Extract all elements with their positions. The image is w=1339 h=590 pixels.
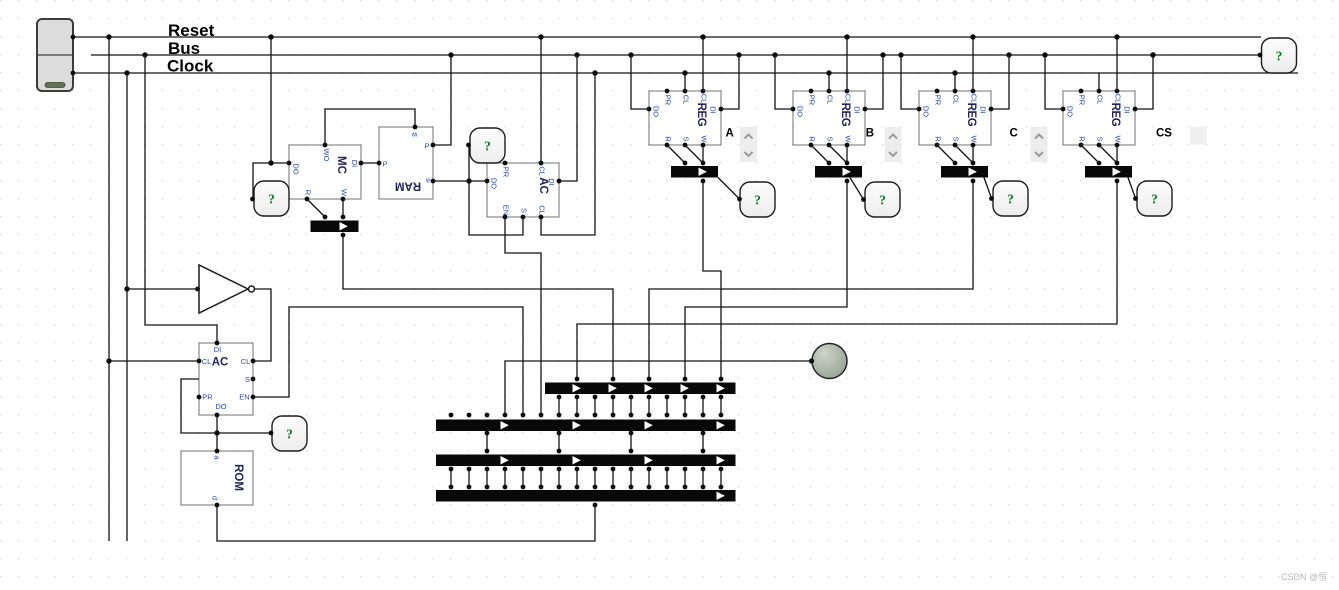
wire REG B R diagonal: [811, 145, 829, 163]
wires splitter3 to splitter4: [450, 469, 452, 487]
svg-text:?: ?: [1276, 49, 1283, 64]
svg-text:DI: DI: [1123, 106, 1132, 114]
REG A pins: [647, 89, 724, 148]
svg-text:?: ?: [286, 427, 293, 442]
svg-text:W: W: [1114, 135, 1123, 143]
svg-text:WO: WO: [322, 149, 331, 162]
wire REG B DO to Bus: [775, 55, 793, 109]
wire probe/DO to AC1 S: [469, 145, 523, 235]
svg-text:AC: AC: [212, 357, 229, 369]
svg-text:S: S: [245, 375, 250, 384]
svg-text:Clock: Clock: [167, 57, 214, 76]
register REG B: [793, 91, 865, 145]
wire REG C CL2 to Reset: [972, 37, 974, 91]
probe pin REG A: [737, 197, 742, 202]
wire REG CS CL2 to Reset: [1116, 37, 1118, 91]
wire REG A R diagonal: [667, 145, 685, 163]
wire REG B CL2 to Reset: [846, 37, 848, 91]
splitter bar MC: [311, 221, 359, 233]
ROM pins: [215, 449, 220, 508]
svg-text:ROM: ROM: [232, 464, 244, 491]
svg-text:PR: PR: [664, 95, 673, 106]
svg-text:CL: CL: [241, 357, 251, 366]
svg-text:MC: MC: [335, 156, 347, 174]
wire AC2 EN to bus splitter 2: [253, 307, 523, 415]
wire MC W to splitter: [342, 199, 344, 217]
splitter bar REG C pins: [953, 161, 976, 184]
wire REG C W net to splitter1: [649, 181, 973, 379]
wire MC DO to probe: [253, 163, 289, 199]
wire Reset to MC DO net: [270, 37, 272, 163]
RAM pins: [377, 125, 436, 184]
wire AC2 DO down to ROM a: [216, 415, 218, 451]
probe pin AC2: [269, 431, 274, 436]
svg-text:EN: EN: [239, 393, 249, 402]
wire Reset rail: [73, 36, 1261, 38]
node AC1 DO junction: [466, 178, 471, 183]
wire Bus rail: [91, 54, 1260, 56]
svg-text:PR: PR: [202, 393, 213, 402]
svg-text:DI: DI: [547, 178, 556, 186]
svg-text:?: ?: [754, 193, 761, 208]
wire inverter output to AC2 CL: [253, 289, 271, 361]
svg-text:w: w: [411, 131, 418, 140]
probe ? AC2: [272, 416, 307, 451]
wire REG B CL to Clock: [828, 73, 830, 91]
AC U4 pins: [197, 341, 256, 418]
indicator lamp: [812, 344, 847, 379]
bus splitter 2 top pins: [449, 413, 544, 418]
wire MC R diagonal to splitter: [307, 199, 325, 217]
probe ? REG B: [865, 182, 900, 217]
svg-text:?: ?: [484, 139, 491, 154]
node inverter input junction: [124, 286, 129, 291]
wire REG A splitter to probe: [718, 178, 740, 200]
svg-text:B: B: [866, 128, 874, 140]
bus splitter 2: [436, 420, 736, 432]
subcircuit AC U3: [487, 163, 559, 217]
node REG B rail junctions: [772, 34, 885, 75]
svg-text:P: P: [382, 160, 387, 169]
wire REG C DI to Bus: [991, 55, 1009, 109]
node REG A rail junctions: [628, 34, 741, 75]
svg-text:DO: DO: [922, 106, 931, 117]
spinner control B: [885, 127, 902, 162]
wire AC1 DI to Bus: [559, 55, 577, 181]
wire REG C R diagonal: [937, 145, 955, 163]
splitter bar REG A: [671, 166, 718, 178]
svg-text:?: ?: [268, 192, 275, 207]
probe pin REG CS: [1133, 196, 1138, 201]
probe ? REG A: [740, 182, 775, 217]
svg-text:W: W: [340, 189, 349, 197]
wire REG A W net to splitter1: [703, 181, 721, 379]
wire REG C splitter to probe: [984, 178, 992, 199]
splitter bar REG B: [815, 166, 862, 178]
svg-text:CL: CL: [952, 95, 961, 105]
wire Clock rail: [73, 72, 1298, 74]
svg-text:R: R: [1078, 136, 1087, 142]
splitter bar REG CS: [1085, 166, 1132, 178]
REG CS pins: [1061, 89, 1138, 148]
lamp pin: [809, 358, 814, 363]
svg-text:REG: REG: [695, 103, 707, 127]
svg-text:CL: CL: [202, 357, 212, 366]
svg-text:CL: CL: [682, 95, 691, 105]
wire REG A S diagonal: [685, 145, 703, 163]
inverter input pin: [195, 287, 200, 292]
node junctions on rails (left): [106, 34, 597, 75]
wire Reset feeder down x=109: [108, 37, 110, 541]
svg-text:d: d: [211, 496, 220, 500]
probe pin Bus end: [1258, 53, 1263, 58]
splitter bar REG A pins: [683, 161, 706, 184]
wire AC1 EN down to bus splitter 2: [505, 217, 541, 415]
svg-text:DI: DI: [853, 106, 862, 114]
wire RAM a to AC1 DO: [433, 180, 487, 182]
wire REG B S diagonal: [829, 145, 847, 163]
subcircuit MC U1: [289, 145, 361, 199]
wire REG B W net to splitter1: [685, 181, 847, 379]
svg-text:DI: DI: [214, 345, 222, 354]
svg-text:R: R: [808, 136, 817, 142]
wire ROM d to bus splitter 4: [217, 505, 595, 541]
splitter bar REG C: [941, 166, 988, 178]
svg-text:S: S: [1096, 136, 1105, 141]
svg-text:A: A: [726, 128, 734, 140]
wires splitter2 to splitter3: [486, 433, 488, 451]
svg-text:Reset: Reset: [168, 21, 215, 40]
wire REG C DO to Bus: [901, 55, 919, 109]
bus splitter 1 pins: [575, 377, 724, 382]
probe ? Bus end: [1262, 38, 1297, 73]
wire REG CS R diagonal: [1081, 145, 1099, 163]
wire REG A DO to Bus: [631, 55, 649, 109]
probe pin AC1: [466, 143, 471, 148]
svg-text:W: W: [844, 135, 853, 143]
svg-text:C: C: [1010, 128, 1018, 140]
wire REG B DI to Bus: [865, 55, 883, 109]
REG B pins: [791, 89, 868, 148]
probe pin REG C: [989, 196, 994, 201]
register REG CS: [1063, 91, 1135, 145]
wire AC1 CL to Reset: [540, 37, 542, 163]
probe pin MC: [250, 197, 255, 202]
subcircuit AC U4: [199, 343, 253, 415]
svg-text:DO: DO: [215, 402, 226, 411]
svg-text:DO: DO: [1066, 106, 1075, 117]
bus splitter 4 bottom pin: [593, 503, 598, 508]
subcircuit RAM U2: [379, 127, 433, 199]
wire REG C CL to Clock: [954, 73, 956, 91]
wire REG CS S diagonal: [1099, 145, 1117, 163]
wire REG CS W net to splitter1: [577, 181, 1117, 379]
svg-text:W: W: [700, 135, 709, 143]
svg-text:PR: PR: [1078, 95, 1087, 106]
wire REG CS splitter to probe: [1128, 178, 1136, 199]
spinner control C: [1031, 127, 1048, 162]
svg-text:REG: REG: [839, 103, 851, 127]
wire REG A CL to Clock: [684, 73, 686, 91]
svg-text:DI: DI: [979, 106, 988, 114]
svg-text:CL: CL: [538, 205, 547, 215]
svg-text:REG: REG: [965, 103, 977, 127]
node Bus CS junction: [1150, 52, 1155, 57]
svg-text:?: ?: [879, 193, 886, 208]
wire REG CS DO to Bus: [1045, 55, 1063, 109]
node AC2 CL junction: [106, 358, 111, 363]
wire REG B splitter to probe: [850, 178, 864, 200]
wire REG CS DI to Bus: [1135, 55, 1153, 109]
wire lamp to bus splitter 2: [505, 361, 812, 415]
svg-text:RAM: RAM: [395, 180, 421, 192]
probe pin REG B: [861, 197, 866, 202]
svg-text:DI: DI: [350, 160, 359, 168]
register REG A: [649, 91, 721, 145]
svg-text:REG: REG: [1109, 103, 1121, 127]
REG C pins: [917, 89, 994, 148]
wire inverter input: [127, 288, 199, 290]
wire REG B W down: [846, 145, 848, 163]
wire MC WO to RAM w: [325, 109, 415, 145]
svg-text:CL: CL: [538, 166, 547, 176]
wire AC2 S to DO node: [181, 379, 217, 433]
splitter bar MC pins: [323, 215, 346, 238]
node REG CS rail junctions: [1042, 34, 1155, 57]
wire REG A W down: [702, 145, 704, 163]
svg-text:PR: PR: [808, 95, 817, 106]
node MC DO / Reset junction: [268, 160, 273, 165]
svg-text:Bus: Bus: [168, 39, 200, 58]
clock device pins: [71, 35, 76, 76]
probe ? REG C: [993, 181, 1028, 216]
svg-text:R: R: [934, 136, 943, 142]
splitter bar REG B pins: [827, 161, 850, 184]
svg-text:CSDN @恒: CSDN @恒: [1281, 571, 1327, 582]
subcircuit ROM U5: [181, 451, 253, 505]
wire REG CS W down: [1116, 145, 1118, 163]
node REG C rail junctions: [898, 34, 1011, 75]
probe ? REG CS: [1137, 181, 1172, 216]
MC pins: [287, 143, 364, 202]
svg-text:DO: DO: [796, 106, 805, 117]
wire REG C W down: [972, 145, 974, 163]
spinner control CS (blank): [1190, 127, 1207, 145]
bus splitter 1: [545, 383, 736, 395]
svg-text:S: S: [826, 136, 835, 141]
node AC2 DO junction: [214, 430, 219, 435]
svg-text:?: ?: [1151, 192, 1158, 207]
register REG C: [919, 91, 991, 145]
svg-text:EN: EN: [502, 205, 511, 215]
svg-text:S: S: [682, 136, 691, 141]
wire Bus feeder to AC2 DI: [145, 55, 217, 343]
wire MC DI to RAM P: [361, 162, 379, 164]
svg-text:CS: CS: [1156, 128, 1172, 140]
wires splitter1 to splitter2: [558, 397, 560, 415]
wire REG A CL2 to Reset: [702, 37, 704, 91]
svg-text:P: P: [424, 142, 429, 151]
AC U3 pins: [485, 161, 562, 220]
probe ? MC: [254, 181, 289, 216]
wire AC1 CL(bottom) to Clock: [541, 73, 595, 235]
spinner control A: [740, 127, 757, 162]
svg-text:R: R: [664, 136, 673, 142]
svg-text:S: S: [520, 208, 529, 213]
wire Clock feeder down x=127: [126, 73, 128, 541]
wire DO node to probe: [217, 432, 271, 434]
bus splitter 4: [436, 490, 736, 502]
svg-text:R: R: [304, 190, 313, 196]
svg-text:PR: PR: [502, 167, 511, 178]
svg-text:CL: CL: [1096, 95, 1105, 105]
probe ? AC1: [470, 128, 505, 163]
svg-text:CL: CL: [826, 95, 835, 105]
svg-text:W: W: [970, 135, 979, 143]
wire RAM P to Bus: [433, 55, 451, 145]
wire MC splitter down to bus splitter 1: [343, 235, 613, 379]
svg-text:?: ?: [1007, 192, 1014, 207]
svg-text:DO: DO: [490, 178, 499, 189]
splitter bar REG CS pins: [1097, 161, 1120, 184]
svg-text:DO: DO: [292, 163, 301, 174]
wire Reset feeder to AC2 CL: [109, 360, 199, 362]
inverter gate: [199, 265, 255, 313]
wire REG CS CL to Clock: [1098, 73, 1100, 91]
svg-text:DO: DO: [652, 106, 661, 117]
svg-text:S: S: [952, 136, 961, 141]
svg-text:PR: PR: [934, 95, 943, 106]
clock source device: [37, 19, 73, 91]
svg-text:DI: DI: [709, 106, 718, 114]
bus splitter 3: [436, 455, 736, 467]
wire REG C S diagonal: [955, 145, 973, 163]
wire REG A DI to Bus: [721, 55, 739, 109]
